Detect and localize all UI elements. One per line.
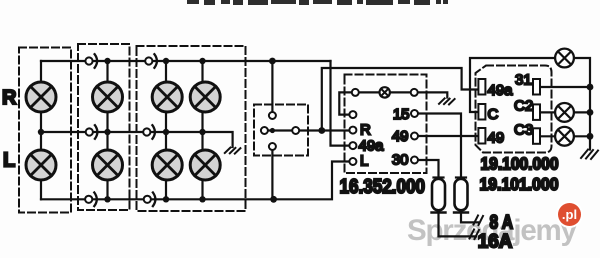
- hazard contact L: [349, 158, 356, 165]
- dashed box left lamp group 1: [19, 48, 71, 213]
- wire R bus corner down to 49a contact: [331, 61, 350, 146]
- connector ring bottom 1: [85, 193, 97, 207]
- hazard contact feed2: [349, 111, 356, 118]
- wire middle L bus: [41, 132, 233, 147]
- switch contact bottom: [269, 143, 276, 150]
- svg-text:31: 31: [515, 72, 532, 89]
- svg-text:16.352.000: 16.352.000: [340, 176, 426, 198]
- svg-text:C: C: [488, 106, 499, 123]
- wire 30 to fuse1: [419, 160, 439, 177]
- svg-text:30: 30: [392, 152, 409, 169]
- fuse 16A (left): [432, 178, 446, 213]
- wire common row to R contact: [322, 129, 349, 131]
- wire lamp C to common column: [575, 58, 591, 150]
- svg-text:R: R: [2, 87, 17, 109]
- terminal 49a flasher: [478, 79, 485, 95]
- wire lamp column 3: [165, 61, 167, 199]
- svg-text:R: R: [360, 122, 371, 139]
- ground middle bus: [225, 148, 241, 154]
- watermark Sprzedajemy: [407, 216, 576, 246]
- wire 49 to flasher: [419, 135, 479, 137]
- junction dots middle wire: [38, 129, 206, 135]
- wire 31 to column: [540, 86, 590, 88]
- wire top bus to switch top contact: [271, 61, 273, 112]
- hazard lamp: [380, 87, 390, 97]
- hazard contact lamp-left: [352, 89, 359, 96]
- terminal C2 flasher: [533, 104, 540, 120]
- top cut-off text remnants: [187, 0, 448, 5]
- fuse 8A (right): [454, 178, 468, 213]
- hazard contact 15: [411, 110, 418, 117]
- svg-text:L: L: [360, 153, 368, 170]
- wire fuse2 to 8A lead: [461, 213, 478, 223]
- svg-text:49: 49: [392, 128, 409, 145]
- direction switch dashed box: [254, 105, 308, 156]
- wire top R bus: [41, 60, 331, 62]
- svg-text:C2: C2: [514, 98, 533, 115]
- terminal C flasher: [478, 104, 485, 120]
- break marks 8A: [474, 216, 484, 226]
- wire switch bottom contact to bottom bus: [271, 151, 273, 200]
- wire lamp column 4: [201, 61, 203, 199]
- wire C2 to lamp: [540, 111, 555, 113]
- lamp L1: [26, 150, 56, 180]
- wire common row junction up to flasher feed: [322, 68, 479, 131]
- switch contact left: [261, 127, 268, 134]
- terminal C3 flasher: [533, 128, 540, 144]
- wire lamp C2 to column: [575, 111, 591, 113]
- terminal 49 flasher: [478, 128, 485, 144]
- wire lamp C3 to column: [575, 135, 591, 137]
- switch pivot dot: [270, 128, 275, 133]
- svg-text:15: 15: [393, 106, 410, 123]
- junction dot common/R: [318, 127, 325, 134]
- wire C3 to lamp: [540, 135, 555, 137]
- hazard contact 49: [411, 133, 418, 140]
- indicator lamp C2: [555, 103, 574, 122]
- hazard contact 30: [411, 157, 418, 164]
- indicator lamp C3: [555, 127, 574, 146]
- dashed box lamp group 3: [137, 46, 246, 211]
- wire fuse1 to 16A lead: [439, 213, 477, 237]
- svg-text:L: L: [3, 150, 15, 172]
- junction dots bottom wire: [104, 196, 277, 203]
- connector ring top 2: [145, 54, 157, 68]
- svg-text:16A: 16A: [478, 232, 513, 253]
- svg-text:C3: C3: [514, 122, 533, 139]
- switch contact top: [269, 112, 276, 119]
- connector ring mid 1: [86, 125, 98, 139]
- junction dots top wire: [104, 58, 275, 65]
- switch contact middle: [292, 127, 299, 134]
- indicator lamp C: [555, 49, 574, 68]
- svg-text:49: 49: [488, 130, 505, 147]
- junction dots column: [587, 84, 594, 140]
- lamp R1: [26, 82, 56, 112]
- svg-text:49a: 49a: [488, 82, 514, 99]
- lamp L3: [152, 150, 182, 180]
- wire C loop to indicator lamp C: [470, 58, 555, 112]
- hazard switch dashed box: [345, 75, 427, 174]
- wire lamp column 1: [40, 61, 42, 199]
- svg-text:8 A: 8 A: [490, 213, 514, 234]
- connector ring mid 2: [143, 125, 155, 139]
- ground hazard lamp: [439, 98, 455, 104]
- wire switch common row: [268, 129, 321, 131]
- lamp L2: [93, 150, 123, 180]
- ground flasher column: [581, 150, 598, 160]
- svg-text:19.101.000: 19.101.000: [480, 174, 559, 194]
- wire lamp bracket hazard switch: [339, 92, 351, 114]
- lamp R2: [93, 82, 123, 112]
- lamp R3: [152, 82, 182, 112]
- watermark pl badge: [558, 203, 581, 226]
- lamp L4: [190, 150, 220, 180]
- lamp R4: [190, 82, 220, 112]
- hazard contact 49a: [349, 142, 356, 149]
- wire 15 to fuse2: [419, 114, 462, 178]
- hazard contact R: [349, 127, 356, 134]
- hazard switch lamp row wire: [357, 92, 447, 97]
- connector ring bottom 2: [144, 193, 156, 207]
- svg-text:19.100.000: 19.100.000: [481, 153, 559, 173]
- terminal 31 flasher: [533, 79, 540, 95]
- wire bottom bus: [41, 162, 349, 200]
- dashed box lamp group 2: [78, 44, 130, 210]
- connector ring top 1: [85, 54, 97, 68]
- hazard contact lamp-right: [411, 89, 418, 96]
- flasher dashed box with chamfer: [476, 66, 552, 153]
- break marks 16A: [470, 230, 480, 240]
- wire lamp column 2: [106, 61, 108, 199]
